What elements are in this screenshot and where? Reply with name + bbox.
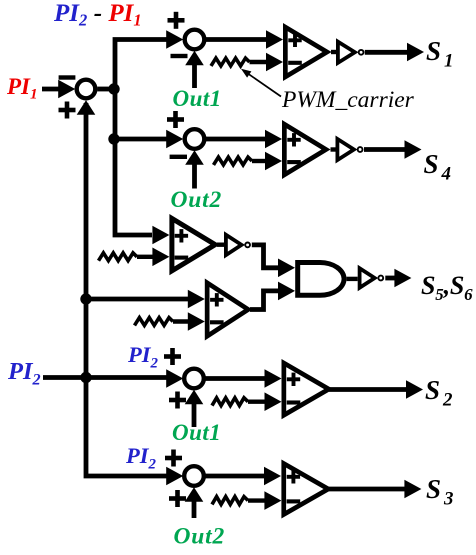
svg-text:PI2 - PI1: PI2 - PI1 bbox=[53, 0, 142, 30]
svg-text:Out1: Out1 bbox=[173, 86, 222, 111]
svg-text:Out2: Out2 bbox=[171, 187, 223, 213]
svg-text:Out1: Out1 bbox=[172, 420, 221, 445]
svg-text:PWM_carrier: PWM_carrier bbox=[281, 87, 415, 113]
svg-text:Out2: Out2 bbox=[174, 524, 226, 550]
